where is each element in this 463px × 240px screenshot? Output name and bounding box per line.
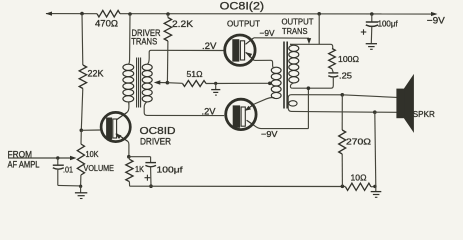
svg-text:−9V: −9V	[260, 28, 275, 38]
svg-text:VOLUME: VOLUME	[84, 163, 115, 173]
svg-text:TRANS: TRANS	[131, 37, 157, 47]
svg-text:.01: .01	[63, 164, 73, 174]
svg-text:100μf: 100μf	[157, 165, 184, 175]
svg-text:−9V: −9V	[261, 129, 278, 139]
svg-text:DRIVER: DRIVER	[140, 137, 171, 147]
svg-text:2.2K: 2.2K	[172, 19, 193, 29]
svg-text:.25: .25	[339, 70, 352, 80]
svg-text:.2V: .2V	[202, 41, 217, 51]
svg-text:AF AMPL: AF AMPL	[8, 159, 40, 169]
svg-text:10K: 10K	[86, 149, 99, 159]
svg-text:TRANS: TRANS	[282, 26, 308, 36]
svg-text:SPKR: SPKR	[413, 109, 435, 119]
svg-text:−9V: −9V	[427, 16, 446, 27]
svg-text:22K: 22K	[88, 69, 104, 79]
svg-text:100μf: 100μf	[378, 18, 399, 28]
svg-text:51Ω: 51Ω	[187, 69, 203, 79]
svg-text:OUTPUT: OUTPUT	[227, 18, 260, 28]
svg-text:470Ω: 470Ω	[95, 18, 118, 28]
svg-text:100Ω: 100Ω	[338, 54, 359, 64]
svg-text:270Ω: 270Ω	[346, 136, 371, 146]
svg-text:OC8I(2): OC8I(2)	[220, 1, 265, 13]
svg-text:1K: 1K	[135, 164, 144, 174]
svg-text:10Ω: 10Ω	[351, 173, 367, 183]
svg-text:OC8ID: OC8ID	[140, 125, 176, 137]
svg-text:.2V: .2V	[202, 107, 216, 117]
